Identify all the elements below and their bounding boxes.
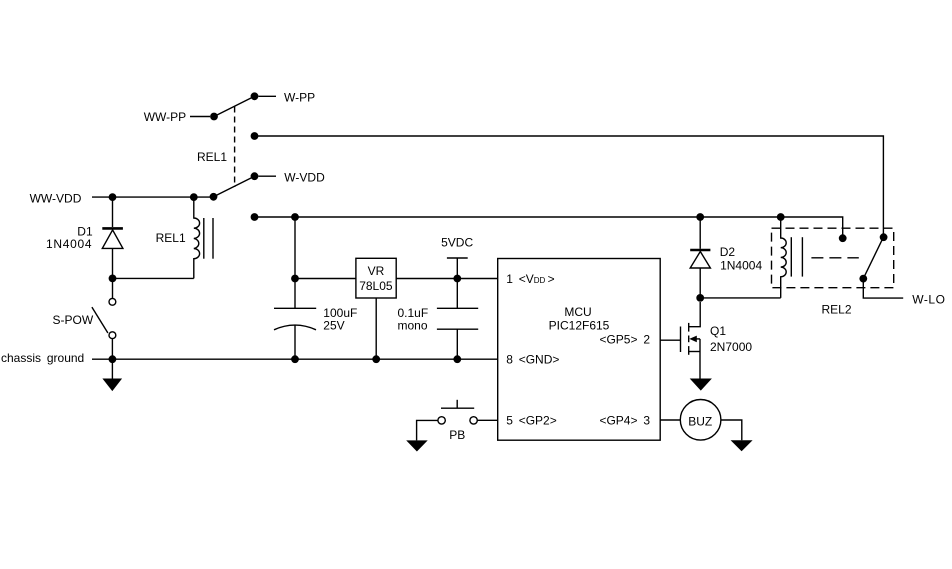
ground arrow PB — [406, 440, 428, 451]
wire PB to pin 5 — [477, 419, 497, 421]
relay REL1 core bars — [204, 218, 213, 259]
wire D1 to coil bottom — [113, 277, 194, 279]
capacitor C2 0.1uF plates — [437, 308, 478, 329]
pushbutton PB — [438, 400, 477, 424]
wire WW-VDD rail — [92, 196, 214, 198]
svg-text:2N7000: 2N7000 — [710, 340, 752, 354]
wire PB left lead — [417, 420, 438, 440]
relay REL1 actuation dashed line — [234, 107, 236, 188]
wire W-PP stub — [259, 95, 277, 97]
power 5VDC bar — [447, 257, 468, 259]
svg-text:W-LO: W-LO — [912, 292, 945, 306]
node top rail terminal — [251, 132, 259, 140]
wire top rail to REL2 switch — [255, 136, 884, 234]
IC U1 MCU PIC12F615 box — [498, 259, 661, 441]
capacitor C1 100uF curved plate — [274, 325, 316, 330]
wire C1 to ground — [294, 326, 296, 360]
wire D2 cathode lead — [699, 217, 701, 249]
wire VDD rail — [255, 217, 843, 235]
switch S-POW top contact — [109, 298, 116, 305]
wire VR input drop — [294, 217, 296, 308]
svg-text:PB: PB — [449, 428, 465, 442]
switch REL2 blade — [863, 237, 883, 278]
svg-text:REL1: REL1 — [197, 150, 227, 164]
svg-text:WW-PP: WW-PP — [144, 110, 186, 124]
wire D2 anode lead — [699, 268, 701, 298]
svg-text:PIC12F615: PIC12F615 — [549, 318, 610, 332]
node REL2 right throw — [880, 233, 888, 241]
svg-text:VR: VR — [368, 264, 385, 278]
svg-text:5VDC: 5VDC — [441, 236, 473, 250]
diode D2 cathode bar — [690, 249, 710, 252]
node D2 top junction — [696, 213, 704, 221]
svg-text:MCU: MCU — [564, 305, 591, 319]
switch S-POW blade — [92, 307, 108, 333]
node W-PP throw — [251, 92, 259, 100]
node W-VDD throw — [251, 172, 259, 180]
wire ground rail — [92, 358, 498, 360]
diode D2 — [690, 252, 710, 269]
node VDD rail junction VR input — [291, 213, 299, 221]
svg-text:8 <GND>: 8 <GND> — [506, 352, 559, 366]
svg-text:Q1: Q1 — [710, 324, 726, 338]
svg-text:<GP4> 3: <GP4> 3 — [599, 414, 650, 428]
voltage regulator VR 78L05 box — [356, 258, 396, 298]
buzzer BUZ — [680, 400, 721, 441]
svg-text:1 <VDD >: 1 <VDD > — [506, 272, 555, 286]
svg-text:WW-VDD: WW-VDD — [30, 191, 82, 205]
wire VR input — [295, 278, 356, 280]
relay REL2 core bars — [791, 237, 802, 276]
node VR ground junction — [372, 355, 380, 363]
node D2 anode junction — [696, 294, 704, 302]
svg-text:REL2: REL2 — [822, 303, 852, 317]
node REL2 common — [859, 275, 867, 283]
wire C2 to ground — [456, 329, 458, 359]
wire VR ground pin — [375, 298, 377, 359]
svg-text:25V: 25V — [323, 319, 344, 333]
wire D1 cathode lead — [112, 197, 114, 227]
switch REL1 blade WW-VDD to W-VDD — [214, 176, 255, 197]
ground arrow buzzer — [731, 440, 753, 451]
wire REL2 common to W-LO — [863, 279, 903, 299]
node C2 ground junction — [453, 355, 461, 363]
wire VR output — [396, 278, 498, 280]
svg-text:1N4004: 1N4004 — [720, 259, 762, 273]
wire S-POW to ground rail — [111, 339, 113, 360]
wire WW-PP lead — [190, 116, 210, 118]
svg-text:S-POW: S-POW — [53, 313, 94, 327]
svg-text:D2: D2 — [720, 245, 736, 259]
wire 5VDC drop — [456, 258, 458, 308]
transistor Q1 — [681, 302, 701, 379]
ground chassis arrow — [102, 359, 122, 391]
node ground chassis junction — [109, 355, 117, 363]
svg-text:5 <GP2>: 5 <GP2> — [506, 414, 557, 428]
diode D1 cathode bar — [102, 227, 123, 230]
relay coil REL2 — [781, 217, 787, 298]
svg-text:REL1: REL1 — [156, 231, 186, 245]
wire pin 2 to gate — [660, 339, 680, 341]
svg-text:BUZ: BUZ — [688, 414, 712, 428]
wire D1 anode lead — [112, 248, 114, 278]
node REL2 left throw — [839, 234, 847, 242]
svg-text:mono: mono — [398, 319, 428, 333]
svg-text:chassis ground: chassis ground — [1, 351, 84, 365]
svg-text:1N4004: 1N4004 — [46, 237, 92, 251]
capacitor C1 100uF top plate — [274, 307, 316, 309]
node VDD rail terminal — [251, 213, 259, 221]
svg-text:78L05: 78L05 — [359, 279, 393, 293]
node WW-PP pole — [210, 113, 218, 121]
svg-text:W-VDD: W-VDD — [284, 171, 325, 185]
wire buzzer right lead — [721, 420, 742, 440]
ground arrow Q1 source — [690, 379, 712, 391]
svg-text:W-PP: W-PP — [284, 90, 315, 104]
node VR input junction — [291, 275, 299, 283]
svg-text:<GP5> 2: <GP5> 2 — [599, 333, 650, 347]
relay REL2 enclosure dashed box — [772, 228, 894, 288]
node C1 ground junction — [291, 355, 299, 363]
switch REL1 blade WW-PP to W-PP — [214, 96, 255, 116]
relay coil REL1 — [194, 197, 200, 278]
switch S-POW bottom contact — [109, 332, 116, 339]
node WW-VDD junction REL1 coil — [190, 193, 198, 201]
wire D2 to REL2 coil bottom — [700, 297, 781, 299]
node WW-VDD junction D1 — [109, 193, 117, 201]
diode D1 — [102, 230, 123, 249]
node D1 REL1 coil junction — [109, 275, 117, 283]
wire S-POW top lead — [112, 278, 114, 298]
node WW-VDD pole — [210, 193, 218, 201]
relay REL2 mechanical link dashed — [811, 257, 858, 259]
wire pin 3 to buzzer — [660, 419, 680, 421]
node VDD rail junction REL2 coil — [777, 213, 785, 221]
wire W-VDD stub — [259, 175, 277, 177]
node 5VDC junction — [453, 275, 461, 283]
